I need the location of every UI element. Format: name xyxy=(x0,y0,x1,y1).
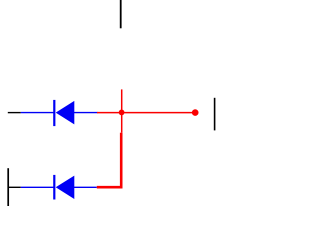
wire: input B stub (black, bottom) xyxy=(8,186,21,188)
wire: output terminal stub (black, right edge) xyxy=(214,98,216,131)
wire: diode D2 to node N1 (blue) xyxy=(74,186,97,188)
wire: positive supply stub (black, top centre) xyxy=(120,0,122,28)
diode D1 (blue, cathode bar on left) xyxy=(54,100,74,126)
wire: input B feed line (black, bottom-left edge) xyxy=(7,168,9,206)
wire: node N1 drop, thin upper part (red) xyxy=(121,113,123,133)
diode D2 (blue, cathode bar on left) xyxy=(54,175,74,200)
wire: diode D2 anode lead (blue) xyxy=(21,186,54,188)
wire: diode D1 anode lead (blue) xyxy=(21,112,54,114)
node junction dot N1 (red) xyxy=(119,110,125,116)
node output dot (red) xyxy=(192,109,199,116)
wire: input A stub (black, left) xyxy=(8,112,21,114)
wire: node N1 riser toward supply (red) xyxy=(121,89,123,112)
wire: node N1 bottom run to diode D2 (red) xyxy=(97,186,123,189)
wire: node N1 drop, thick lower part (red) xyxy=(120,133,123,186)
wire: node N1 horizontal run to output (red) xyxy=(97,112,198,114)
wire: diode D1 to node N1 (blue) xyxy=(74,112,98,114)
